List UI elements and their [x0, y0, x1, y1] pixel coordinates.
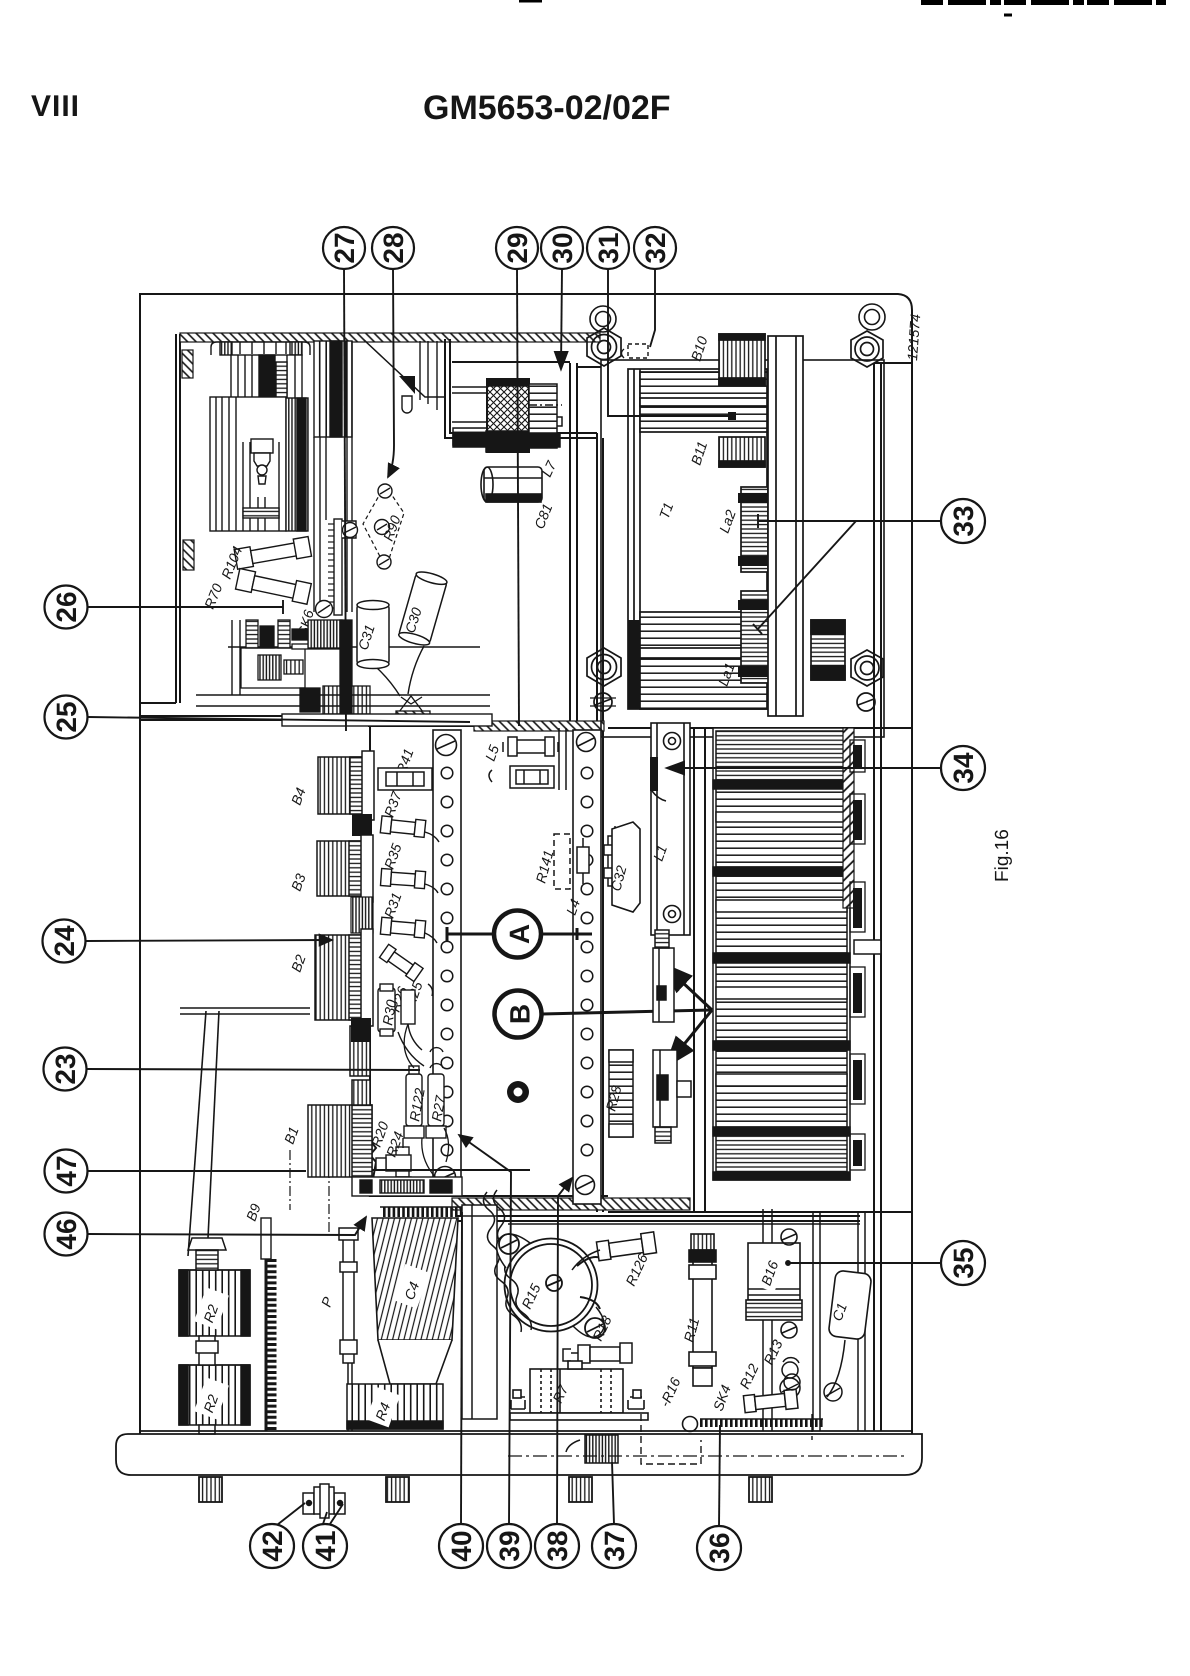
transformer T1 outline: [628, 369, 767, 709]
capacitor can 1: [716, 731, 847, 780]
potentiometer R2 lower drum: [179, 1365, 250, 1425]
callout 41: [303, 1524, 347, 1568]
leader 36: [719, 1425, 720, 1527]
bank top/bottom lines: [608, 727, 912, 729]
twisted wire pair R: [483, 1190, 531, 1332]
connector block lower (B target): [653, 1050, 691, 1143]
solder lug under B3: [351, 897, 373, 933]
outer chassis frame: [140, 294, 912, 1434]
subchassis plate top right: [601, 360, 884, 737]
svg-text:33: 33: [948, 505, 979, 536]
flat screw below right hex: [857, 693, 875, 711]
bend flag under fold line: [399, 376, 415, 394]
mounting bracket bar: [768, 336, 803, 716]
svg-text:B: B: [505, 1004, 536, 1024]
leader 32: [650, 269, 655, 347]
R20 R24 parts: [376, 1138, 411, 1196]
leader 29: [517, 269, 519, 726]
top edge scan artifacts: [519, 1, 1166, 15]
SK6 top bracket screw: [342, 521, 356, 538]
label R2 (lower): [194, 1377, 229, 1419]
svg-text:30: 30: [547, 232, 578, 263]
leader 40: [461, 1212, 462, 1524]
connector block upper (B target): [653, 930, 674, 1022]
resistor R29 small: [398, 990, 424, 1066]
inner wall right of B16: [813, 1212, 865, 1431]
lamp holder La2: [741, 487, 768, 572]
wire from C31 to clamp: [377, 668, 400, 696]
callout 35: [941, 1241, 985, 1285]
callout 32: [634, 227, 676, 269]
dark side strip of body: [286, 398, 308, 531]
toothed rack strip: [261, 1218, 272, 1431]
leader 23: [87, 1069, 420, 1070]
channel duct right of C4: [462, 1205, 497, 1419]
callout 47: [45, 1150, 88, 1193]
svg-text:31: 31: [593, 232, 624, 263]
leader 25: [88, 717, 470, 722]
capacitor can B4: [318, 751, 374, 820]
capacitor can 3: [716, 876, 847, 953]
upper cylinder of tube unit: [231, 355, 302, 439]
variable capacitor C4: [372, 1218, 458, 1384]
callout 37: [592, 1524, 636, 1568]
tube B11: [719, 437, 765, 467]
svg-text:28: 28: [378, 232, 409, 263]
leader 39: [459, 1135, 511, 1524]
black eyelet on plate: [507, 1081, 529, 1103]
leader 37: [612, 1462, 614, 1524]
resistor R122 vertical: [404, 1066, 424, 1138]
svg-text:24: 24: [49, 925, 80, 957]
main body block: [210, 397, 286, 531]
extra verticals right of tube block: [419, 341, 421, 400]
svg-text:40: 40: [446, 1530, 477, 1561]
callout 33: [941, 499, 985, 543]
resistor R70: [236, 569, 312, 605]
lamp holder La1: [741, 591, 772, 683]
resistor R4 ribbed: [347, 1384, 443, 1429]
capacitor can 6: [716, 1136, 847, 1172]
svg-text:34: 34: [948, 752, 979, 784]
tube B10: [719, 334, 765, 385]
capacitor can 2: [716, 789, 847, 867]
leader 33: [758, 520, 941, 522]
svg-text:35: 35: [948, 1247, 979, 1278]
bracket above plate (L5 bracket): [559, 728, 566, 790]
knurled knob body: [487, 379, 529, 452]
callout 27: [323, 227, 365, 269]
wire from C1: [827, 1340, 845, 1397]
label B16: [752, 1248, 788, 1292]
shelf line above bottom section: [455, 1216, 860, 1224]
svg-text:Fig.16: Fig.16: [992, 829, 1013, 882]
resistor R37: [380, 816, 439, 842]
capacitor can B3: [317, 835, 373, 902]
knurled roller: [258, 655, 281, 680]
capacitor can B1: [308, 1080, 372, 1177]
foot 3: [569, 1477, 592, 1502]
callout 25: [45, 696, 88, 739]
hex screw top-right of subchassis: [851, 331, 883, 367]
solder lug under B4: [352, 814, 372, 836]
grommet R16: [683, 1417, 698, 1432]
svg-text:41: 41: [310, 1530, 341, 1561]
hex screw bottom-left of subchassis: [587, 648, 621, 686]
leader 30: [561, 269, 562, 368]
potentiometer disc R15: [497, 1234, 605, 1338]
output socket under panel (items 41/42): [303, 1484, 345, 1518]
callout 34: [941, 746, 985, 790]
long adjuster rods: [188, 1011, 206, 1256]
callout 24: [43, 920, 86, 963]
grommet left: [590, 306, 616, 332]
SK6 bottom screw: [316, 601, 333, 618]
threaded shaft through R2: [188, 1238, 226, 1434]
leader 24: [86, 940, 332, 941]
label C4: [392, 1264, 429, 1309]
callout 28: [372, 227, 414, 269]
socket strip SK6: [316, 519, 358, 618]
terminal stub mid right: [854, 936, 881, 958]
slot screw bottom-left: [435, 1167, 456, 1188]
capacitor can 4: [716, 963, 847, 1041]
trimmer L4 parts: [604, 826, 626, 896]
callout 26: [45, 586, 88, 629]
slot screw top-left: [436, 735, 457, 756]
resistor R104: [234, 537, 311, 605]
hex screw top-left of subchassis: [587, 328, 883, 711]
black stop tag (target of 34): [650, 757, 658, 791]
fuse R41 body: [378, 768, 432, 790]
capacitor can B2: [315, 929, 373, 1076]
resistor R12: [743, 1389, 798, 1413]
dashed resistor R141: [554, 834, 589, 889]
T1 bottom lamination stripes: [640, 612, 767, 709]
callout 40: [439, 1524, 483, 1568]
callout 38: [535, 1524, 579, 1568]
potentiometer shaft P: [339, 1228, 358, 1431]
hatched bar plate bottom: [452, 1198, 690, 1210]
middle wall step: [445, 339, 597, 438]
hatched clamp strip: [843, 728, 854, 908]
solder lug under B2: [351, 1018, 371, 1042]
svg-text:47: 47: [51, 1155, 82, 1186]
mounting diamond with screws R90: [363, 485, 404, 568]
callout 39: [487, 1524, 531, 1568]
foot 1: [199, 1477, 222, 1502]
grommet right: [859, 304, 885, 330]
capacitor C31: [357, 601, 389, 669]
transformer R7 block: [510, 1361, 648, 1420]
coil body right of knob: [529, 384, 557, 448]
cable clip (target of 32): [628, 344, 648, 358]
circled letter B with pointers: [495, 966, 713, 1064]
capacitor C82 black cylinder: [811, 620, 845, 680]
right tag strip with holes: [573, 730, 601, 1204]
right tall block: [314, 341, 352, 437]
leader 41: [323, 1504, 343, 1524]
shelf above plate: [140, 715, 470, 717]
callout 42: [250, 1524, 294, 1568]
svg-text:23: 23: [50, 1053, 81, 1084]
toothed strip bottom: [700, 1419, 823, 1423]
diagonal fold line top-left: [364, 340, 445, 397]
svg-text:A: A: [504, 924, 535, 944]
callout 46: [45, 1213, 88, 1256]
callout 30: [541, 227, 583, 269]
resistor R25 tilted: [380, 944, 424, 981]
shaft left of knob: [452, 386, 488, 388]
bolt right: [628, 1397, 644, 1409]
mounting plate under R7: [510, 1413, 648, 1420]
nut on tube: [251, 439, 273, 453]
svg-text:27: 27: [329, 232, 360, 263]
leader 28: [388, 269, 394, 477]
callout 23: [44, 1048, 87, 1091]
leader 35: [790, 1262, 941, 1264]
black lug row: [308, 620, 342, 648]
foot 2: [386, 1477, 409, 1502]
tag strip left of plate: [352, 1177, 462, 1196]
leader 31: [608, 269, 728, 416]
trimmer comb on C4: [380, 1207, 466, 1212]
label R2 (upper): [194, 1287, 229, 1329]
svg-text:29: 29: [502, 232, 533, 263]
dashed centre line across lower area: [508, 1455, 905, 1457]
capacitor C1: [828, 1270, 872, 1340]
flat screw below left hex: [590, 693, 616, 711]
T1 top lamination stripes: [640, 372, 767, 432]
leader 34: [668, 767, 941, 769]
leader 27: [344, 269, 346, 731]
leader 46: [88, 1217, 366, 1235]
wiper wires on R15: [577, 1257, 601, 1309]
circled letter A with pointers: [447, 911, 592, 958]
leader 47: [88, 1170, 530, 1171]
leader 26: [88, 606, 283, 608]
resistor R35: [380, 869, 438, 893]
trimmer R28: [609, 1050, 633, 1137]
svg-text:42: 42: [257, 1530, 288, 1561]
wall between L7 bay and T1 bay: [569, 363, 571, 728]
dash-dot guide lines B9 area: [290, 1150, 329, 1232]
bolt left: [511, 1397, 525, 1409]
leader 38: [557, 1178, 572, 1524]
top wall hatched strip: [180, 333, 600, 570]
resistor R27 vertical: [426, 1048, 446, 1138]
resistor R126: [596, 1232, 656, 1261]
vibrator B16: [746, 1229, 802, 1338]
fuse L5: [503, 737, 558, 756]
callout 36: [697, 1526, 741, 1570]
potentiometer R2 upper drum: [179, 1270, 250, 1336]
svg-text:26: 26: [51, 591, 82, 622]
left tag strip with holes: [433, 730, 601, 1204]
resistor R30 vertical: [378, 984, 395, 1036]
coil unit L1: [651, 723, 690, 935]
wire R27 to strip: [404, 1024, 448, 1178]
left inner wall: [179, 334, 181, 703]
svg-text:39: 39: [494, 1530, 525, 1561]
svg-text:VIII: VIII: [31, 90, 80, 123]
leader 42: [277, 1503, 305, 1525]
svg-text:36: 36: [704, 1532, 735, 1563]
capacitor can 5: [716, 1050, 847, 1127]
svg-text:46: 46: [51, 1218, 82, 1249]
holes left strip: [441, 767, 453, 1156]
svg-text:121574: 121574: [904, 313, 923, 361]
cable clamp: [396, 696, 430, 718]
callout 29: [496, 227, 538, 269]
resistor R31: [380, 917, 437, 943]
svg-text:GM5653-02/02F: GM5653-02/02F: [423, 89, 671, 127]
divider right of plate: [693, 728, 695, 1212]
label R4: [366, 1387, 400, 1427]
fuse R41: [489, 766, 554, 788]
wall right of R11: [763, 1209, 772, 1431]
callout 31: [587, 227, 629, 269]
wire from C30 to clamp: [408, 646, 424, 694]
svg-text:38: 38: [542, 1530, 573, 1561]
shelf line under compartment: [228, 646, 480, 648]
hex screw bottom-right of subchassis: [851, 650, 883, 686]
foot 4: [749, 1477, 772, 1502]
capacitor C81: [481, 467, 542, 502]
capacitor C30: [398, 569, 449, 647]
fuse holder R11: [689, 1234, 716, 1386]
capacitor R13 beads: [782, 1358, 800, 1390]
black base bar: [453, 433, 560, 447]
capacitor C32: [612, 822, 640, 912]
right wall inner lines: [873, 363, 875, 1431]
svg-text:25: 25: [51, 701, 82, 732]
svg-text:32: 32: [640, 232, 671, 263]
switch SK4 dashed outline: [641, 1414, 812, 1464]
terminal blocks under tube assembly: [241, 620, 370, 714]
top flange: [211, 342, 310, 355]
hatched coupler (target of 37): [566, 1435, 618, 1463]
hatched bar on plate top: [474, 721, 604, 731]
screw left of comb: [780, 1378, 842, 1401]
svg-text:37: 37: [599, 1530, 630, 1561]
shelf under assembly: [196, 620, 492, 726]
solder tab column: [853, 745, 862, 1166]
resistor R18: [563, 1343, 632, 1363]
component plate: [370, 726, 608, 1196]
